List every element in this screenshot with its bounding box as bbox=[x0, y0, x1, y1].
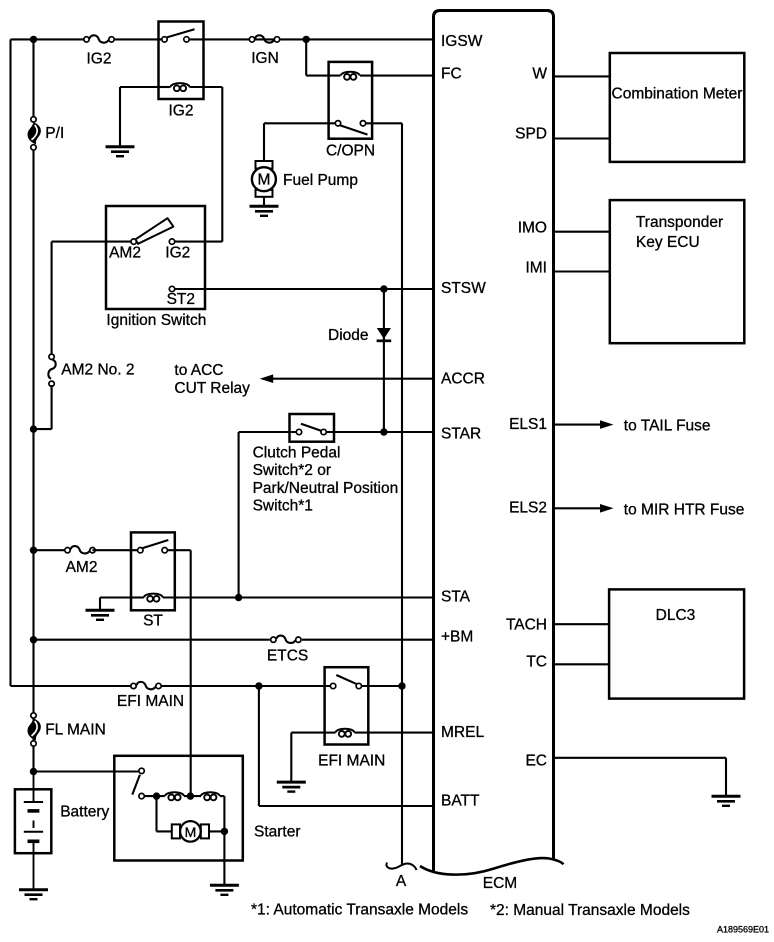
relay EFI MAIN switch bbox=[336, 675, 357, 684]
wire diode branch bbox=[383, 289, 385, 432]
wire IG2 fuse to IG2 relay switch bbox=[115, 38, 162, 40]
node STA junction bbox=[235, 594, 242, 601]
node starter motor-ground junction bbox=[221, 828, 228, 835]
ignition switch box bbox=[106, 206, 205, 309]
wire AM2 No.2 branch lower bbox=[51, 385, 53, 429]
svg-text:Key ECU: Key ECU bbox=[636, 234, 700, 251]
wire starter to ground bbox=[223, 831, 225, 885]
svg-text:ST: ST bbox=[143, 612, 163, 629]
svg-text:to ACC: to ACC bbox=[174, 362, 223, 379]
wire AM2 No.2 branch upper bbox=[51, 242, 53, 356]
wire main rail upper bbox=[32, 39, 34, 116]
node AM2 No.2 junction bbox=[30, 425, 37, 432]
box DLC3 bbox=[609, 589, 744, 698]
svg-text:TC: TC bbox=[526, 654, 547, 671]
wire IG2 ground drop bbox=[119, 87, 121, 147]
svg-text:Park/Neutral Position: Park/Neutral Position bbox=[253, 480, 399, 497]
wire EFI switch to down rail bbox=[361, 685, 402, 687]
svg-text:P/I: P/I bbox=[45, 125, 64, 142]
wire left outer rail bbox=[9, 39, 11, 686]
relay ST box bbox=[131, 532, 175, 610]
clutch switch box bbox=[290, 414, 335, 442]
wire to starter motor left brush bbox=[157, 830, 174, 832]
arrowhead to MIR HTR fuse bbox=[600, 504, 614, 513]
wire IG2 coil to right drop bbox=[190, 86, 223, 88]
ground fuel pump bbox=[250, 206, 279, 216]
wire AM2 branch to AM2 contact bbox=[52, 241, 131, 243]
battery B1 cells bbox=[24, 772, 43, 890]
node STSW-diode junction bbox=[380, 285, 387, 292]
wire down to fuel pump bbox=[263, 123, 265, 161]
svg-text:IG2: IG2 bbox=[87, 51, 112, 68]
fuse IG2 bbox=[84, 35, 114, 42]
ground ST relay bbox=[86, 610, 115, 620]
ground EFI MAIN relay bbox=[277, 782, 306, 792]
fuse AM2 No. 2 bbox=[48, 354, 55, 386]
wire ST coil to ground bbox=[100, 596, 131, 598]
svg-text:ACCR: ACCR bbox=[441, 371, 485, 388]
wire between starter coils bbox=[184, 795, 201, 797]
relay IG2 box bbox=[159, 22, 204, 100]
wire clutch switch left bbox=[239, 431, 297, 433]
wire main rail lower bbox=[32, 150, 34, 771]
wire ELS1 bbox=[554, 424, 602, 426]
wire SPD to combination meter bbox=[554, 137, 610, 139]
ignition switch lever (key wedge) bbox=[136, 218, 174, 244]
svg-text:EFI MAIN: EFI MAIN bbox=[117, 693, 184, 710]
wire EC ground drop bbox=[725, 758, 727, 797]
fusible link FL MAIN bbox=[28, 713, 41, 746]
svg-text:Transponder: Transponder bbox=[636, 214, 723, 231]
svg-text:C/OPN: C/OPN bbox=[326, 143, 375, 160]
node starter solenoid junction bbox=[187, 792, 194, 799]
svg-text:M: M bbox=[185, 824, 197, 840]
svg-text:Starter: Starter bbox=[254, 823, 301, 840]
relay IG2 coil bbox=[171, 83, 190, 91]
wire rail to ETCS fuse bbox=[34, 639, 270, 641]
wire battery to starter contact bbox=[34, 770, 140, 772]
svg-text:Switch*2 or: Switch*2 or bbox=[253, 462, 331, 479]
fuse EFI MAIN bbox=[131, 682, 161, 689]
starter solenoid coil 2 bbox=[201, 792, 220, 800]
arrowhead to TAIL fuse bbox=[600, 420, 614, 429]
starter solenoid coil 1 bbox=[165, 792, 184, 800]
node +BM junction bbox=[30, 636, 37, 643]
node STAR junction bbox=[380, 428, 387, 435]
wire EC to ground bbox=[554, 757, 727, 759]
svg-text:STSW: STSW bbox=[441, 280, 486, 297]
starter magnetic switch contact bbox=[132, 775, 140, 795]
wire TC to DLC3 bbox=[554, 663, 610, 665]
svg-text:Switch*1: Switch*1 bbox=[253, 498, 313, 515]
wire clutch drop to STA bbox=[238, 432, 240, 598]
svg-text:FC: FC bbox=[441, 66, 462, 83]
ignition switch ST2 contact bbox=[169, 286, 174, 291]
clutch pedal switch contacts bbox=[301, 424, 323, 432]
ground EC bbox=[712, 796, 741, 806]
wire ST ground drop bbox=[99, 598, 101, 611]
svg-text:IGSW: IGSW bbox=[441, 33, 483, 50]
ECM torn bottom edge bbox=[420, 858, 564, 875]
wire IG2 coil left stub bbox=[159, 86, 171, 88]
svg-text:BATT: BATT bbox=[441, 793, 480, 810]
svg-text:Diode: Diode bbox=[328, 327, 369, 344]
svg-text:CUT Relay: CUT Relay bbox=[174, 380, 250, 397]
wire EFI ground drop bbox=[290, 733, 292, 783]
wire fuel pump to ground bbox=[263, 197, 265, 207]
fuse AM2 bbox=[65, 546, 95, 553]
wire IG2 contact to relay drop bbox=[175, 241, 223, 243]
wire ST coil to STA pin bbox=[163, 596, 434, 598]
svg-text:EC: EC bbox=[525, 753, 547, 770]
wire EFI MAIN fuse to relay switch bbox=[162, 685, 331, 687]
wire W to combination meter bbox=[554, 75, 610, 77]
ground IG2 relay bbox=[106, 147, 135, 157]
wire starter motor left drop bbox=[155, 796, 157, 831]
node battery junction bbox=[30, 768, 37, 775]
node starter motor tap bbox=[153, 792, 160, 799]
svg-text:to TAIL Fuse: to TAIL Fuse bbox=[624, 418, 711, 435]
svg-text:IGN: IGN bbox=[251, 50, 279, 67]
wire ETCS to +BM pin bbox=[302, 639, 434, 641]
svg-text:A: A bbox=[396, 873, 407, 890]
ground starter bbox=[210, 885, 239, 895]
wire IG2 coil to ground bbox=[120, 86, 159, 88]
relay IG2 switch bbox=[166, 29, 195, 37]
node AM2 junction bbox=[30, 547, 37, 554]
svg-text:SPD: SPD bbox=[515, 126, 547, 143]
wire ST switch to starter drop bbox=[167, 549, 190, 551]
svg-text:ELS2: ELS2 bbox=[509, 500, 547, 517]
box Transponder Key ECU bbox=[610, 200, 745, 343]
wire IG2 relay to ignition IG2 contact bbox=[221, 87, 223, 242]
wire clutch switch to STAR pin bbox=[326, 431, 433, 433]
svg-text:STAR: STAR bbox=[441, 426, 481, 443]
wire starter right drop bbox=[223, 796, 225, 831]
wire IGN drop to C/OPN coil bbox=[305, 39, 307, 75]
svg-text:A189569E01: A189569E01 bbox=[717, 925, 769, 935]
wire outer rail to EFI MAIN fuse bbox=[11, 685, 131, 687]
wire to C/OPN coil bbox=[306, 75, 340, 77]
svg-text:*1: Automatic Transaxle Models: *1: Automatic Transaxle Models bbox=[251, 902, 468, 919]
wire EFI coil left stub bbox=[325, 732, 336, 734]
svg-text:ELS1: ELS1 bbox=[509, 416, 547, 433]
svg-text:M: M bbox=[257, 171, 270, 188]
svg-text:MREL: MREL bbox=[441, 724, 484, 741]
wire to BATT pin bbox=[259, 805, 434, 807]
svg-text:AM2: AM2 bbox=[109, 245, 141, 262]
wire EFI junction down to BATT bbox=[258, 686, 260, 806]
wire AM2 No.2 to main rail bbox=[34, 428, 52, 430]
svg-text:+BM: +BM bbox=[441, 629, 473, 646]
ignition switch IG2 contact bbox=[169, 239, 174, 244]
ground battery bbox=[19, 890, 48, 900]
wire IMO to transponder bbox=[554, 231, 610, 233]
wire AM2 fuse to ST switch bbox=[93, 549, 138, 551]
relay ST switch bbox=[142, 540, 169, 548]
svg-text:IMO: IMO bbox=[518, 220, 547, 237]
fuse ETCS bbox=[271, 636, 301, 643]
wire EFI coil to MREL pin bbox=[355, 732, 434, 734]
svg-text:ST2: ST2 bbox=[167, 291, 195, 308]
wire ACCR to ACC cut relay bbox=[273, 378, 434, 380]
wire ST2 to STSW pin bbox=[175, 288, 434, 290]
diode D1 bbox=[377, 328, 391, 339]
svg-text:IG2: IG2 bbox=[169, 103, 194, 120]
wire EFI coil to ground bbox=[291, 732, 324, 734]
ECM box U1 bbox=[434, 11, 554, 873]
svg-text:ETCS: ETCS bbox=[267, 648, 308, 665]
svg-text:Combination Meter: Combination Meter bbox=[612, 86, 743, 103]
svg-text:IMI: IMI bbox=[525, 260, 547, 277]
wire ELS2 bbox=[554, 507, 602, 509]
wire top feed to IG2 fuse bbox=[11, 38, 84, 40]
arrowhead to ACC CUT relay bbox=[260, 374, 274, 383]
svg-text:EFI MAIN: EFI MAIN bbox=[318, 752, 385, 769]
wire TACH to DLC3 bbox=[554, 623, 610, 625]
ignition switch AM2 contact bbox=[131, 239, 136, 244]
svg-text:IG2: IG2 bbox=[165, 245, 190, 262]
wire IMI to transponder bbox=[554, 270, 610, 272]
svg-text:W: W bbox=[532, 65, 547, 82]
svg-text:AM2: AM2 bbox=[66, 559, 98, 576]
node top-left junction bbox=[30, 36, 37, 43]
svg-text:Ignition Switch: Ignition Switch bbox=[106, 312, 206, 329]
fuse IGN bbox=[249, 35, 279, 42]
motor fuel pump bbox=[252, 161, 276, 197]
svg-text:STA: STA bbox=[441, 589, 471, 606]
wire ST relay to starter solenoid bbox=[190, 550, 192, 796]
svg-text:to MIR HTR Fuse: to MIR HTR Fuse bbox=[624, 501, 745, 518]
wire ST coil left stub bbox=[131, 596, 144, 598]
svg-text:FL MAIN: FL MAIN bbox=[45, 722, 106, 739]
box Combination Meter bbox=[610, 53, 745, 162]
relay ST coil bbox=[144, 594, 163, 602]
wire starter coil2 to corner bbox=[220, 795, 225, 797]
wire starter motor right brush bbox=[208, 830, 224, 832]
node EFI-A junction bbox=[398, 682, 405, 689]
fusible link P/I bbox=[28, 117, 41, 150]
wire C/OPN switch to down rail bbox=[366, 122, 402, 124]
wire fuel pump to C/OPN switch bbox=[264, 122, 335, 124]
node IGN junction bbox=[303, 36, 310, 43]
break symbol A bbox=[386, 863, 416, 871]
relay C/OPN coil bbox=[341, 72, 360, 80]
wire C/OPN coil to FC pin bbox=[360, 75, 434, 77]
relay C/OPN box bbox=[329, 62, 373, 139]
relay C/OPN switch bbox=[340, 125, 368, 134]
svg-text:TACH: TACH bbox=[506, 617, 547, 634]
wire rail to AM2 fuse bbox=[34, 549, 68, 551]
relay EFI MAIN coil bbox=[336, 729, 355, 737]
wire IG2 relay to IGSW pin bbox=[189, 38, 433, 40]
svg-text:Battery: Battery bbox=[60, 804, 109, 821]
svg-text:ECM: ECM bbox=[483, 875, 517, 892]
battery box bbox=[15, 789, 51, 853]
relay EFI MAIN box bbox=[325, 667, 369, 744]
svg-text:Fuel Pump: Fuel Pump bbox=[283, 172, 358, 189]
svg-text:*2: Manual Transaxle Models: *2: Manual Transaxle Models bbox=[490, 902, 690, 919]
node EFI-BATT junction bbox=[255, 682, 262, 689]
starter box bbox=[114, 756, 243, 861]
svg-text:AM2 No. 2: AM2 No. 2 bbox=[61, 361, 134, 378]
wire starter contact to coil1 bbox=[144, 795, 165, 797]
wire C/OPN down rail to A bbox=[401, 123, 403, 865]
motor starter M bbox=[172, 821, 209, 842]
svg-text:DLC3: DLC3 bbox=[656, 607, 696, 624]
svg-text:Clutch Pedal: Clutch Pedal bbox=[253, 445, 341, 462]
